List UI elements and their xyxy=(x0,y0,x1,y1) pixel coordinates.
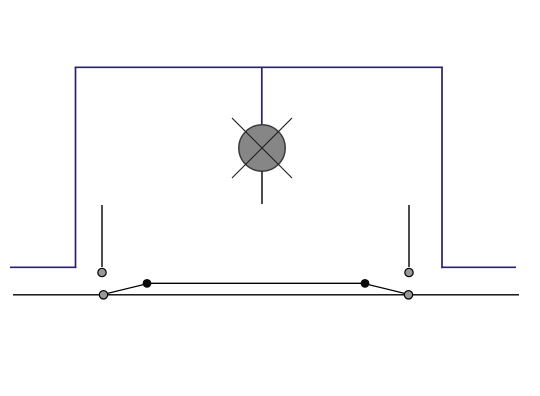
wire N (neutral, bottom horizontal) xyxy=(13,294,519,296)
terminal S1 common xyxy=(98,268,106,276)
terminal S2 pole (on neutral wire) xyxy=(404,291,412,299)
wire L right riser (blue vertical) xyxy=(441,67,443,269)
wire L top run (blue horizontal) xyxy=(75,66,443,68)
terminal S1 pole (on neutral wire) xyxy=(99,291,107,299)
wire L entry segment (blue, left horizontal) xyxy=(10,266,76,268)
wire S1 common stub xyxy=(101,205,103,267)
switch S1 (left two-way switch) xyxy=(98,268,152,299)
contact dot S1 (traveler junction) xyxy=(143,279,152,288)
wire lamp feed (blue drop from top run to lamp) xyxy=(261,67,263,125)
lamp E1 (circle with cross) xyxy=(232,118,292,178)
switch S2 blade xyxy=(366,284,408,294)
terminal S2 common xyxy=(405,268,413,276)
wire S2 common stub xyxy=(408,205,410,267)
wire lamp return stub xyxy=(261,172,263,205)
wire L exit segment (blue, right horizontal) xyxy=(441,266,516,268)
traveler wire (between switches) xyxy=(147,282,365,284)
switch S1 blade xyxy=(104,284,146,294)
contact dot S2 (traveler junction) xyxy=(361,279,370,288)
switch S2 (right two-way switch) xyxy=(361,268,414,299)
wire L left riser (blue vertical) xyxy=(75,67,77,269)
